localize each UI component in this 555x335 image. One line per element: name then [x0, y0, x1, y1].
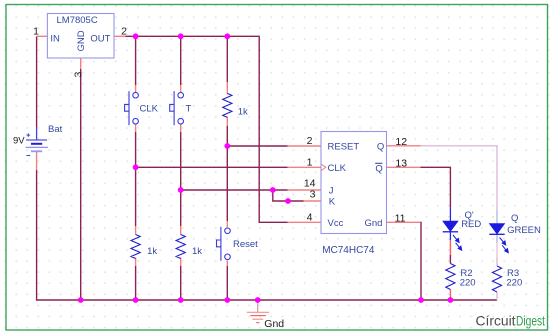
svg-text:RED: RED: [461, 219, 481, 230]
svg-text:1k: 1k: [147, 246, 157, 257]
svg-text:GND: GND: [76, 30, 87, 51]
svg-text:Q: Q: [375, 163, 382, 174]
svg-text:T: T: [186, 104, 192, 115]
svg-text:220: 220: [506, 278, 522, 289]
svg-text:CLK: CLK: [140, 104, 159, 115]
svg-text:J: J: [329, 186, 334, 197]
svg-text:Q: Q: [377, 142, 384, 153]
svg-text:1: 1: [307, 156, 313, 168]
svg-text:Círcuit: Círcuit: [476, 313, 516, 329]
svg-text:Q: Q: [511, 213, 518, 224]
svg-text:IN: IN: [50, 34, 60, 45]
svg-text:MC74HC74: MC74HC74: [322, 245, 375, 256]
svg-text:1: 1: [33, 26, 39, 38]
svg-text:OUT: OUT: [90, 34, 110, 45]
svg-text:3: 3: [73, 72, 85, 78]
svg-text:13: 13: [395, 157, 407, 169]
svg-text:2: 2: [121, 25, 127, 37]
svg-text:2: 2: [307, 135, 313, 147]
svg-text:RESET: RESET: [328, 142, 360, 153]
svg-text:LM7805C: LM7805C: [57, 15, 98, 26]
svg-text:12: 12: [395, 136, 407, 148]
svg-text:3: 3: [310, 189, 316, 201]
svg-text:4: 4: [307, 211, 313, 223]
svg-text:K: K: [329, 197, 336, 208]
svg-text:Reset: Reset: [233, 239, 258, 250]
svg-text:Vcc: Vcc: [328, 218, 344, 229]
svg-text:Gnd: Gnd: [264, 318, 284, 330]
svg-text:220: 220: [460, 278, 476, 289]
svg-text:1k: 1k: [238, 107, 248, 118]
svg-text:GREEN: GREEN: [507, 225, 541, 236]
svg-text:1k: 1k: [192, 246, 202, 257]
svg-text:Gnd: Gnd: [365, 218, 383, 229]
svg-text:11: 11: [395, 213, 406, 225]
svg-text:9V: 9V: [13, 136, 25, 147]
svg-text:Digest: Digest: [516, 313, 545, 329]
svg-text:CLK: CLK: [328, 163, 347, 174]
svg-text:Bat: Bat: [48, 124, 63, 135]
